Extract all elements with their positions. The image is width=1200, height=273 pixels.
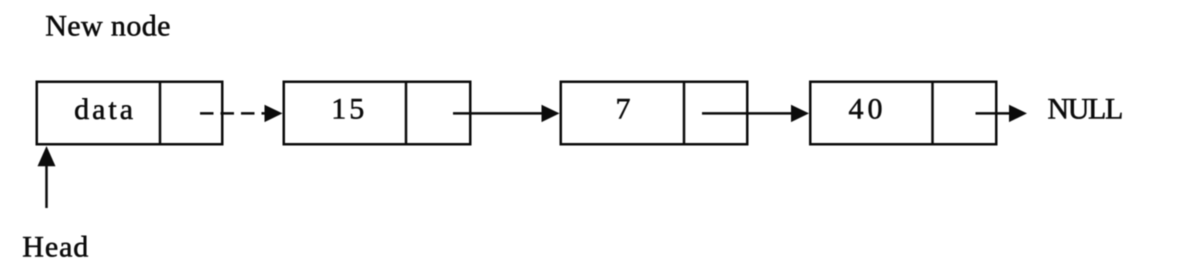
svg-text:7: 7 — [616, 93, 631, 126]
svg-text:New node: New node — [45, 10, 171, 43]
svg-text:data: data — [74, 93, 136, 126]
svg-text:15: 15 — [331, 93, 367, 126]
svg-text:40: 40 — [849, 93, 887, 126]
svg-text:NULL: NULL — [1048, 93, 1122, 126]
svg-text:Head: Head — [22, 231, 89, 264]
